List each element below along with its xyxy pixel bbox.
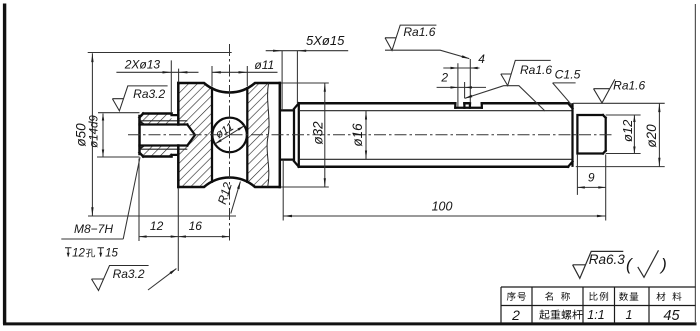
dim phi14d9 — [97, 113, 140, 157]
boss outline — [140, 114, 172, 157]
block right face — [279, 83, 282, 187]
border right — [694, 4, 696, 323]
svg-text:Ra1.6: Ra1.6 — [613, 79, 645, 93]
svg-text:15: 15 — [105, 248, 118, 260]
svg-text:45: 45 — [663, 308, 680, 324]
title header 数量 — [619, 292, 628, 301]
svg-text:12: 12 — [150, 219, 164, 233]
svg-text:ø20: ø20 — [644, 124, 659, 148]
hatch boss bottom band — [140, 146, 172, 157]
svg-text:): ) — [659, 255, 667, 274]
M8 drill cone — [187, 125, 195, 146]
note depth 12 / 15 — [65, 248, 72, 257]
dim 9 — [577, 154, 605, 220]
svg-text:ø16: ø16 — [350, 123, 365, 147]
border bottom — [3, 322, 697, 325]
title row: part name 起重螺杆 — [539, 310, 549, 320]
dim phi12 — [606, 115, 641, 154]
centerline horizontal — [128, 134, 614, 136]
notch bottoms — [455, 107, 482, 109]
hatch boss top band — [140, 114, 172, 125]
M8 thread thin lines — [140, 121, 188, 149]
M8 mouth chamfers — [140, 121, 145, 149]
title header 材料 — [656, 292, 665, 301]
dim phi32 — [281, 83, 329, 187]
svg-text:ø50: ø50 — [74, 123, 89, 147]
svg-text:100: 100 — [432, 200, 453, 214]
shaft bottom edge — [299, 166, 568, 169]
block left face — [177, 83, 180, 187]
dim phi20 — [573, 103, 665, 166]
dim 100 — [283, 160, 606, 221]
shaft top edge — [299, 102, 568, 105]
svg-text:ø12: ø12 — [620, 119, 635, 142]
circle phi11 diameter dim — [215, 126, 245, 145]
svg-text:1: 1 — [626, 308, 633, 322]
svg-text:1:1: 1:1 — [587, 308, 604, 322]
dims 12 and 16 — [139, 159, 230, 272]
thread start chamfer — [294, 103, 299, 167]
R12 leader — [231, 182, 241, 214]
thread root thin lines — [299, 111, 573, 160]
svg-text:Ra3.2: Ra3.2 — [113, 267, 145, 281]
svg-text:2Xø13: 2Xø13 — [124, 57, 161, 71]
M8 hole walls — [140, 125, 188, 146]
svg-text:2: 2 — [440, 71, 448, 85]
title header 比例 — [589, 292, 597, 301]
surface Ra1.6 no.1 — [385, 25, 436, 50]
dim phi50 — [88, 53, 236, 217]
boss root groove — [172, 114, 179, 157]
hatch block right zone — [247, 83, 269, 187]
surface Ra1.6 no.3 — [594, 79, 615, 103]
svg-text:ø32: ø32 — [311, 121, 326, 145]
border left — [3, 4, 6, 325]
svg-text:ø11: ø11 — [254, 58, 274, 72]
break wavy line — [267, 83, 269, 187]
block top edge with saddle arc — [178, 83, 279, 92]
dim 2 (notch width) — [437, 82, 486, 98]
notch 2 — [470, 103, 482, 108]
notch 1 — [455, 103, 464, 108]
svg-text:5Xø15: 5Xø15 — [306, 33, 345, 48]
surface Ra3.2 bottom — [92, 266, 149, 291]
dim 5xPhi15 — [266, 51, 349, 111]
circle phi11 — [212, 118, 247, 153]
dim 2xPhi13 — [116, 60, 198, 112]
svg-text:Ra1.6: Ra1.6 — [403, 25, 435, 39]
svg-text:Ra3.2: Ra3.2 — [133, 87, 165, 101]
dim 4 (notch pitch) — [443, 59, 479, 107]
dim phi11 top — [212, 66, 278, 87]
svg-text:ø14d9: ø14d9 — [89, 115, 101, 148]
dim phi16 — [365, 111, 367, 160]
title header 序号 — [507, 292, 516, 301]
general surface mark Ra6.3 — [573, 251, 624, 278]
stub outline — [577, 115, 605, 154]
title block grid — [501, 287, 695, 306]
svg-text:2: 2 — [511, 307, 520, 323]
centerline vertical — [229, 44, 231, 242]
svg-text:Ra6.3: Ra6.3 — [589, 252, 626, 267]
svg-text:16: 16 — [189, 219, 203, 233]
surface Ra1.6 no.2 — [501, 60, 551, 85]
svg-text:M8−7H: M8−7H — [74, 222, 113, 236]
svg-text:12: 12 — [72, 248, 85, 260]
surface Ra3.2 top — [112, 86, 167, 111]
title header 名称 — [545, 292, 553, 301]
hatch block left zone — [178, 83, 212, 187]
block bottom edge with saddle arc — [178, 178, 279, 187]
svg-text:Ra1.6: Ra1.6 — [520, 63, 552, 77]
shaft end chamfer + face — [568, 103, 573, 167]
neck groove — [281, 110, 294, 159]
svg-text:9: 9 — [588, 171, 595, 185]
svg-text:4: 4 — [478, 52, 485, 66]
svg-text:C1.5: C1.5 — [555, 67, 581, 81]
hole phi11 walls — [212, 88, 247, 182]
